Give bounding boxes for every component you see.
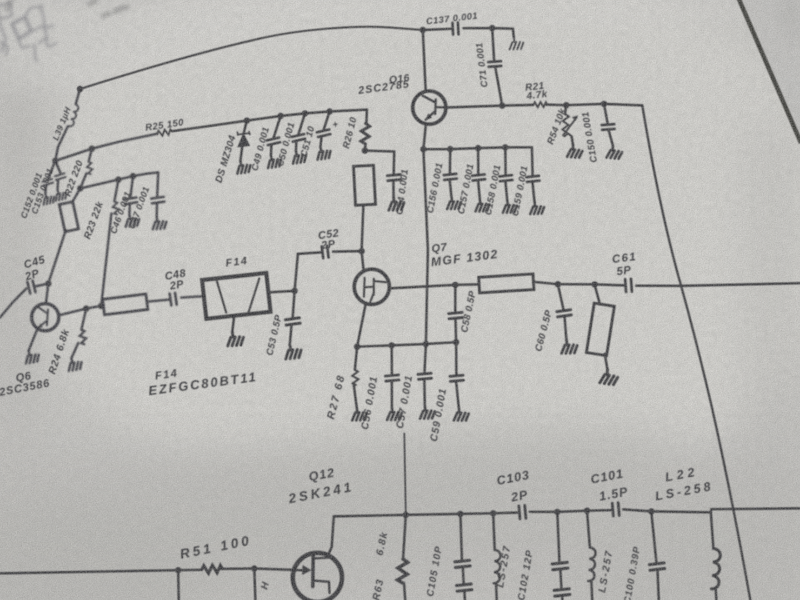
capacitor C157 <box>472 174 485 180</box>
wire C102 mid <box>560 570 561 588</box>
ground (C152) <box>41 192 56 206</box>
node rail A / R22 <box>89 146 95 152</box>
wire below node L <box>177 570 180 600</box>
capacitor C156 <box>444 174 457 180</box>
capacitor C152 <box>42 179 53 186</box>
wire C61 right <box>636 283 800 286</box>
wire F14 out <box>268 291 294 293</box>
capacitor C159 <box>526 176 539 182</box>
Q16 emitter arrow <box>425 113 432 120</box>
capacitor C56 <box>385 375 399 381</box>
wire C150 bottom <box>609 131 613 146</box>
node C150 tap <box>601 101 607 107</box>
capacitor C158 <box>499 175 512 181</box>
wire C54 branch <box>365 151 394 174</box>
inductor LS-257 (2) <box>588 548 596 582</box>
wire C60 top <box>558 284 564 309</box>
resistor R24 zigzag <box>78 329 87 345</box>
wire C58 chain <box>454 285 456 312</box>
ground (C137 right) <box>508 36 524 50</box>
capacitor C51 <box>317 129 330 137</box>
wire top supply rail (curved page) <box>80 27 423 89</box>
capacitor C50 <box>292 134 305 142</box>
wire C57 bottom <box>423 381 426 406</box>
wire Q6 collector <box>46 284 48 304</box>
wire Q7 source <box>357 304 366 347</box>
node R24 tap <box>83 305 89 311</box>
Q6 internal symbol <box>38 307 48 327</box>
transistor Q16 body <box>413 91 446 124</box>
capacitor C150 <box>602 124 615 130</box>
wire below node R <box>254 569 255 600</box>
wire C102 bottom <box>561 596 564 600</box>
capacitor C58 <box>449 312 463 318</box>
capacitor C59 <box>450 375 464 381</box>
wire R22 bottom <box>80 173 86 188</box>
node LS1 tap <box>490 510 496 516</box>
capacitor C61 <box>625 279 632 292</box>
resistor R27 zigzag <box>352 370 359 386</box>
wire C158 bottom <box>506 182 508 201</box>
wire rail A left part <box>55 134 157 161</box>
capacitor C71 <box>488 61 501 67</box>
wire rail to C150 <box>566 104 604 105</box>
ground (C57) <box>419 405 435 419</box>
node C50 tap <box>302 110 308 116</box>
node C58/C59 tap <box>453 339 459 345</box>
node C46 tap <box>130 173 136 179</box>
wire Q12 drain up <box>328 516 334 556</box>
node R27 tap <box>354 344 360 350</box>
ground (C47) <box>151 216 167 230</box>
transistor Q6 body <box>32 304 59 331</box>
node LS2 tap <box>584 508 590 514</box>
node R54 tap <box>563 102 569 108</box>
wire C71 top <box>492 28 494 60</box>
wire box to C60 node <box>533 282 558 284</box>
capacitor C49 <box>267 138 280 146</box>
wire L39 bottom <box>55 126 68 160</box>
wire C53 top <box>293 291 295 318</box>
resistor R23 zigzag <box>112 201 120 215</box>
wire C54 bottom <box>392 181 395 196</box>
ground (DS) <box>235 159 252 174</box>
wire C105 mid <box>462 568 465 584</box>
wire R26 bottom <box>364 144 367 151</box>
inductor L39 <box>69 104 80 127</box>
wire C47 bottom <box>155 204 158 217</box>
capacitor C54 <box>387 175 401 181</box>
wire LS2 top <box>587 511 590 548</box>
resistor R54 zigzag <box>562 114 571 136</box>
wire C49 bottom <box>270 145 273 156</box>
wire L22 top <box>711 512 714 548</box>
stripline box (left column) <box>59 202 78 232</box>
node C57 tap <box>423 341 429 347</box>
node rail-L39 <box>77 86 83 92</box>
wire R51 right <box>221 569 293 570</box>
node C137/C71 <box>489 25 495 31</box>
R54 arrow <box>563 118 577 136</box>
stripline box (vertical right) <box>586 303 614 356</box>
wire C46 bottom <box>128 205 131 214</box>
wire R27 bottom <box>354 385 357 408</box>
wire R21 right <box>547 103 567 106</box>
ground (C53) <box>283 343 302 360</box>
next page area beyond top-right page edge <box>738 0 800 141</box>
wire Q16 collector <box>423 30 426 91</box>
wire C56 bottom <box>391 382 394 408</box>
node R43 tap <box>403 512 409 518</box>
lighting: upper-left bright curl highlight <box>0 0 800 96</box>
wire rail A right part <box>172 110 367 132</box>
wire C103 right <box>530 511 558 514</box>
wire boxE top <box>72 188 80 202</box>
Q12 internal leads <box>313 558 330 594</box>
wire C45 right <box>36 284 48 287</box>
wire C49 tap <box>274 116 281 138</box>
wire L22 bottom <box>714 589 717 600</box>
capacitor C52 <box>322 246 329 258</box>
wire to R21 <box>502 104 533 107</box>
Q12 internal channel bar <box>311 556 315 587</box>
capacitor C46 <box>124 198 137 205</box>
wire rail to corner <box>604 104 642 106</box>
wire LS1 bottom <box>495 583 498 600</box>
node C49 tap <box>277 113 283 119</box>
wire C46 top <box>130 176 133 197</box>
wire LS1 top <box>493 513 495 549</box>
ground (C153) <box>53 188 68 202</box>
node C52/Q7 gate <box>358 248 364 254</box>
transistor Q7 body <box>354 269 389 304</box>
transistor Q12 body <box>293 553 342 600</box>
node F14/C53 <box>291 288 297 294</box>
wire C150 top <box>604 104 608 123</box>
wire C59 top <box>455 342 458 374</box>
wire C156 bottom <box>450 181 452 197</box>
wire C57 top <box>425 344 426 373</box>
ground (C156) <box>446 196 462 210</box>
capacitor C137 <box>452 23 458 35</box>
node R23 tap <box>115 176 121 182</box>
F14 internal lines <box>217 278 259 313</box>
wire Q6 emitter <box>29 328 38 350</box>
wire R51 rail <box>0 570 202 574</box>
wire C153 stub <box>55 161 60 173</box>
wire box to C52 node <box>362 205 364 252</box>
left (softer focus) schematic ink <box>0 89 204 372</box>
stripline box (R26 column) <box>353 165 375 205</box>
wire R27 top <box>355 347 357 370</box>
stripline box (Q6 base) <box>103 294 148 315</box>
wire C152 bottom <box>44 186 47 194</box>
node R26/C54 <box>362 147 368 153</box>
wire C152 stub <box>48 161 55 179</box>
node L39/C152 <box>52 158 58 164</box>
wire Q6 base <box>59 305 104 315</box>
node R51 left <box>175 567 181 573</box>
capacitor C48 <box>170 293 177 305</box>
ground (C59) <box>453 407 469 421</box>
wire C137 left stub <box>423 29 451 30</box>
page edge line top-right <box>738 0 800 143</box>
wire R24 top <box>81 309 86 330</box>
wire Q16 to C71 node <box>446 106 503 108</box>
node C71 bottom <box>499 102 505 108</box>
wire C156 top <box>449 149 452 173</box>
wire C100 bottom <box>658 571 659 600</box>
lighting: left edge shade <box>0 60 45 600</box>
wire to C101 <box>587 509 611 512</box>
node C156 tap <box>447 146 453 152</box>
diode DS MZ304 <box>237 132 250 147</box>
ground (C150) <box>607 145 623 159</box>
wire C157 bottom <box>478 181 480 199</box>
wire C47 top <box>157 172 158 196</box>
capacitor C103 <box>519 505 526 518</box>
lighting: bottom-right corner <box>570 480 800 600</box>
node R23 bottom <box>98 303 104 309</box>
wire C153 bottom <box>56 180 59 190</box>
blurry fragment: partial schematic on curled page top-left <box>0 3 57 62</box>
resistor R26 zigzag <box>361 123 370 144</box>
wire R24 bottom <box>71 343 78 358</box>
wire to boxD node <box>558 283 595 286</box>
wire C159 bottom <box>533 183 535 202</box>
ground (C51) <box>315 145 332 160</box>
stripline box (drain) <box>479 274 534 293</box>
node C158 tap <box>502 144 508 150</box>
wire emitter rail <box>423 147 532 149</box>
Q6 emitter arrow <box>38 323 43 328</box>
node boxD tap <box>591 281 597 287</box>
node R51 right <box>251 565 257 571</box>
wire R23 top <box>114 180 118 202</box>
wire C52 left <box>298 252 321 254</box>
wire C60 bottom <box>565 317 567 339</box>
capacitor C101 <box>612 503 619 516</box>
resistor R22 zigzag <box>86 161 93 174</box>
wire R22 top <box>89 149 92 162</box>
wire C158 top <box>504 147 507 174</box>
Q7 internal symbol <box>364 278 386 302</box>
wire Q16 emitter <box>423 124 426 149</box>
capacitor C53 <box>285 318 300 325</box>
wire C51 tap <box>324 112 330 130</box>
node right cap tap <box>648 508 654 514</box>
wire LS2 bottom <box>590 582 593 600</box>
wire C159 top <box>531 147 534 175</box>
filter F14 box <box>202 273 270 319</box>
ground (boxD) <box>600 369 618 385</box>
capacitor C153 <box>55 173 66 180</box>
wire C48 to F14 <box>181 296 204 297</box>
ground (C49) <box>265 153 282 168</box>
wire R23 long down <box>101 214 111 306</box>
ground (C60) <box>560 339 578 355</box>
wire C58 bottom <box>454 319 457 342</box>
ground (C54) <box>387 196 404 211</box>
capacitor C102 <box>552 562 568 569</box>
wire C53 bottom <box>290 325 292 344</box>
wire C137 right <box>463 27 492 30</box>
wire F14 node up <box>295 254 298 291</box>
ground (C56) <box>386 406 402 420</box>
resistor R25 zigzag <box>157 129 172 137</box>
wire boxD top <box>595 284 600 304</box>
wire C45 left <box>0 289 26 318</box>
node emitter rail left <box>420 146 426 152</box>
inductor L22 <box>711 549 720 590</box>
ground (C50) <box>290 149 307 164</box>
ground (Q6) <box>23 349 40 365</box>
wire boxD bottom <box>605 354 608 369</box>
wire Q7 drain <box>389 285 455 289</box>
capacitor C100 <box>649 563 664 570</box>
wire C157 top <box>477 148 480 174</box>
wire Q16 emitter drop <box>423 149 428 344</box>
wire C50 tap <box>299 113 306 134</box>
node C157 tap <box>475 145 481 151</box>
capacitor C60 <box>557 310 571 317</box>
ground (C159) <box>529 201 545 215</box>
wire Q7 gate <box>362 251 364 269</box>
wire C56 top <box>390 345 393 374</box>
lighting: mid shadow band diagonal <box>0 391 685 600</box>
node C102 tap <box>554 509 560 515</box>
resistor R51 zigzag <box>201 565 222 574</box>
capacitor below C102 <box>554 589 570 596</box>
node C137 left <box>420 27 426 33</box>
wire mystery vertical <box>404 434 406 515</box>
ground (R27) <box>351 407 368 422</box>
wire DS bottom <box>240 146 242 161</box>
ground (R54) <box>567 145 582 158</box>
wire C100 top <box>651 511 656 562</box>
R54 arrow head <box>572 115 578 120</box>
wire bottom rail <box>334 513 517 517</box>
wire boxE bottom <box>48 230 66 283</box>
capacitor C105 <box>455 560 470 567</box>
wire DS tap <box>244 121 247 134</box>
capacitor C57 <box>418 373 432 379</box>
wire box to C48 <box>147 300 169 302</box>
node C51 tap <box>326 108 332 114</box>
wire rail B <box>80 172 158 188</box>
ground (R24) <box>66 356 83 372</box>
wire R63 top <box>403 515 406 559</box>
inductor LS-257 (1) <box>494 550 501 583</box>
wire rail right end <box>651 508 800 512</box>
capacitor below C105 <box>457 584 472 591</box>
wire C59 bottom <box>456 383 459 408</box>
wire to LS2 <box>557 511 587 512</box>
node C58 top <box>452 282 458 288</box>
node C60 tap <box>555 281 561 287</box>
capacitor C45 <box>27 281 35 294</box>
wire to ground top <box>492 28 514 37</box>
wire R54 top <box>565 105 566 114</box>
node C56 tap <box>389 342 395 348</box>
wire source rail <box>357 342 456 347</box>
wire C101 right <box>623 509 651 511</box>
wire C71 bottom <box>495 68 502 106</box>
wire C105 top <box>460 514 462 560</box>
right edge shade <box>745 120 800 600</box>
wire R26 top (corner) <box>365 110 368 124</box>
wire L39 top <box>76 89 80 104</box>
wire R54 bottom <box>572 136 573 144</box>
wire C50 bottom <box>295 141 298 151</box>
Q12 gate lead <box>294 569 304 571</box>
node C45/Q6 <box>45 280 51 286</box>
wire F14 ground stub <box>232 315 234 331</box>
resistor R21 zigzag <box>533 102 547 108</box>
lighting: lower shadow band <box>0 455 800 600</box>
node DS tap <box>244 117 250 123</box>
wire C51 bottom <box>320 137 321 147</box>
wire C52 right <box>333 250 362 253</box>
capacitor C47 <box>151 197 164 204</box>
wire to C61 <box>595 284 624 285</box>
Q12 gate arrow <box>302 565 311 575</box>
wire drain rail to box <box>455 283 479 286</box>
ground (C158) <box>502 200 518 214</box>
wire R63 bottom <box>404 583 405 600</box>
resistor R63 zigzag <box>397 559 407 583</box>
wire C102 top <box>557 512 559 562</box>
node rail B left <box>77 185 83 191</box>
ground (C46) <box>124 213 140 228</box>
node C105 tap <box>457 511 463 517</box>
ground (C157) <box>474 198 490 212</box>
ground (F14) <box>226 330 244 346</box>
wire C105 bottom <box>463 592 466 600</box>
Q16 internal symbol <box>423 96 446 120</box>
wire long right vertical (page-curved) <box>642 105 750 600</box>
